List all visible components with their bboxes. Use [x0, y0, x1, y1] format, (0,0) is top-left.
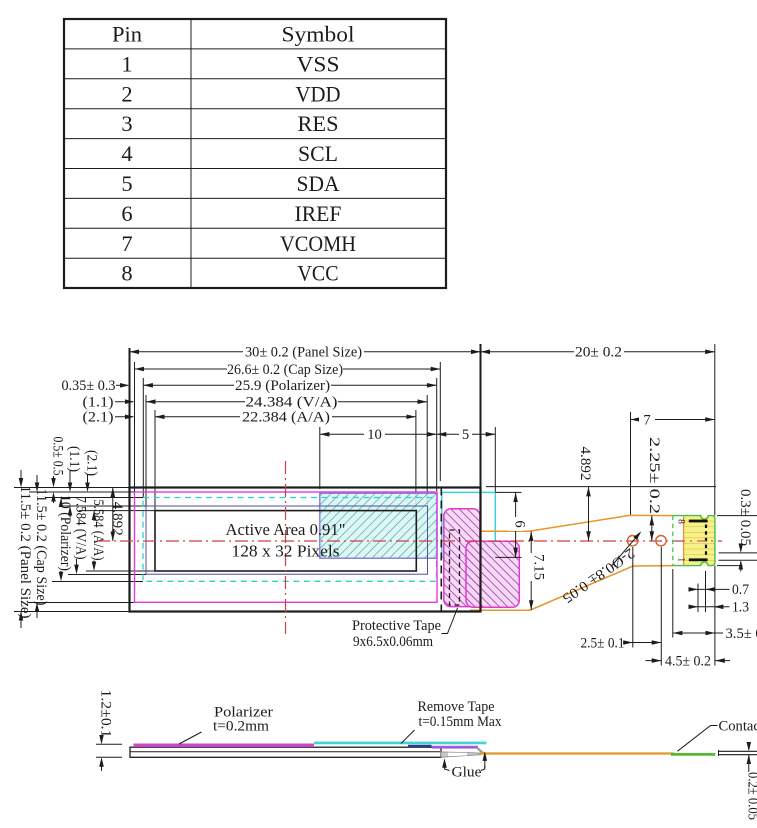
hole label 2-Ø0.8±0.05 (diagonal) — [559, 533, 640, 606]
svg-text:Pin: Pin — [112, 22, 142, 47]
dim 1.3 — [689, 600, 749, 616]
label polarizer t=0.2mm — [179, 705, 273, 745]
svg-text:0.35± 0.3: 0.35± 0.3 — [62, 378, 116, 394]
svg-text:Glue: Glue — [452, 764, 482, 780]
svg-text:Symbol: Symbol — [282, 22, 355, 47]
svg-text:22.384 (A/A): 22.384 (A/A) — [242, 410, 330, 426]
svg-text:Protective Tape: Protective Tape — [352, 618, 441, 634]
connector yellow body — [684, 516, 715, 564]
dim 30±0.2 / 20±0.2 panel width line — [130, 344, 715, 361]
connector green fold dashed line — [672, 516, 674, 566]
side view: polarizer band (magenta) — [134, 744, 315, 748]
svg-text:1: 1 — [121, 51, 132, 76]
svg-text:1.2±0.1: 1.2±0.1 — [98, 690, 114, 738]
svg-text:VSS: VSS — [297, 51, 340, 76]
extension line top-right horizontal — [486, 486, 716, 488]
svg-text:4.892: 4.892 — [109, 502, 125, 536]
pin table text — [112, 22, 356, 286]
dim 0.2±0.05 — [745, 744, 757, 821]
svg-text:6: 6 — [512, 520, 528, 527]
connector pin 8 (top) — [689, 520, 708, 523]
mounting hole 2 — [656, 536, 666, 546]
side view: glue wedge — [441, 748, 483, 757]
connector middle pins (dashed) — [705, 525, 707, 558]
svg-text:SDA: SDA — [297, 171, 341, 196]
left vertical dim labels (rotated) — [17, 437, 125, 619]
svg-text:VCOMH: VCOMH — [280, 231, 356, 256]
label remove tape t=0.15mm max — [401, 699, 502, 744]
svg-text:IREF: IREF — [295, 201, 342, 226]
protective tape label + leader — [352, 608, 458, 650]
svg-text:4: 4 — [121, 141, 132, 166]
remove tape A (hatched cyan, over panel) — [320, 493, 437, 558]
svg-text:(1.1): (1.1) — [83, 395, 114, 411]
svg-text:8: 8 — [676, 519, 686, 524]
centerline vertical (red) — [285, 461, 287, 634]
polarizer outline (cyan dashed) — [143, 498, 437, 582]
side view: glass slabs — [130, 747, 441, 757]
A/A outline — [155, 511, 416, 571]
svg-text:t=0.15mm Max: t=0.15mm Max — [419, 714, 503, 730]
glass edge dashed line — [440, 488, 442, 612]
svg-text:2.25± 0.2: 2.25± 0.2 — [646, 437, 662, 514]
pin table frame — [64, 19, 446, 288]
fpc outline bottom (orange) — [470, 566, 673, 611]
svg-text:VDD: VDD — [296, 81, 341, 106]
side view: fpc bonded end (violet) — [432, 746, 478, 749]
svg-text:0.5± 0.5: 0.5± 0.5 — [50, 437, 66, 476]
svg-text:(2.1): (2.1) — [84, 450, 100, 476]
svg-text:0.7: 0.7 — [732, 582, 749, 598]
dim 2.5±0.1 — [581, 635, 662, 651]
dim 7 — [631, 412, 715, 428]
svg-text:25.9 (Polarizer): 25.9 (Polarizer) — [235, 378, 330, 394]
svg-text:RES: RES — [298, 111, 339, 136]
svg-text:0.2± 0.05: 0.2± 0.05 — [745, 772, 757, 820]
svg-text:7: 7 — [121, 231, 132, 256]
svg-text:4.5± 0.2: 4.5± 0.2 — [665, 653, 711, 669]
svg-text:5: 5 — [121, 171, 132, 196]
svg-text:Remove Tape: Remove Tape — [418, 699, 495, 715]
dim 0.7 — [689, 582, 749, 598]
svg-text:(1.1): (1.1) — [66, 446, 82, 472]
svg-text:1.3: 1.3 — [732, 600, 749, 616]
svg-text:20± 0.2: 20± 0.2 — [575, 345, 622, 361]
label glue + leaders — [445, 753, 485, 780]
dim 26.6±0.2 cap size — [135, 361, 441, 377]
bottom-right extension verticals — [633, 547, 715, 666]
panel outline (black) — [130, 488, 481, 612]
svg-text:24.384 (V/A): 24.384 (V/A) — [246, 395, 338, 411]
mounting hole 1 — [627, 536, 637, 546]
svg-text:5: 5 — [462, 427, 469, 443]
fpc outline top (orange) — [467, 515, 673, 531]
svg-text:7: 7 — [643, 412, 650, 428]
dim 4.892 right — [577, 447, 593, 542]
remove tape B (cyan outline, right of cap) — [442, 492, 496, 557]
dim 24.384 V/A + (1.1) label — [83, 394, 428, 410]
svg-text:3: 3 — [121, 111, 132, 136]
dim 0.3±0.05 — [737, 489, 753, 572]
dim 1.2±0.1 — [96, 690, 122, 772]
svg-text:11.5± 0.2 (Panel Size): 11.5± 0.2 (Panel Size) — [17, 486, 33, 619]
svg-text:t=0.2mm: t=0.2mm — [213, 719, 270, 735]
dim 22.384 A/A + (2.1) label — [83, 409, 416, 425]
svg-text:1: 1 — [676, 557, 686, 562]
centerline over connector (red) — [676, 540, 722, 542]
extension lines from top dims down to panel features — [130, 344, 715, 516]
svg-text:9x6.5x0.06mm: 9x6.5x0.06mm — [353, 634, 434, 650]
side view: contact area (green) — [671, 753, 715, 756]
side view: seal band (navy) — [408, 745, 432, 748]
svg-text:3.5± 0.2: 3.5± 0.2 — [726, 626, 757, 642]
dim 10 — [320, 427, 437, 443]
protective tape piece 1 (pink hatched) — [444, 509, 480, 607]
dim 4.892 left — [112, 488, 114, 542]
svg-text:5.584 (A/A): 5.584 (A/A) — [90, 500, 106, 561]
dim 5 — [437, 427, 496, 443]
svg-text:Contact: Contact — [719, 718, 757, 734]
side view: fpc cable (orange) — [479, 752, 675, 754]
svg-text:2-Ø0.8± 0.05: 2-Ø0.8± 0.05 — [559, 545, 637, 606]
svg-text:26.6± 0.2 (Cap Size): 26.6± 0.2 (Cap Size) — [227, 362, 343, 378]
svg-text:8: 8 — [121, 261, 132, 286]
svg-text:VCC: VCC — [298, 261, 339, 286]
dim 4.5±0.2 — [646, 653, 731, 669]
dim 6 — [495, 492, 527, 557]
label contact — [678, 718, 757, 751]
svg-text:4.892: 4.892 — [577, 447, 593, 481]
connector outline (green) — [673, 516, 715, 566]
svg-text:SCL: SCL — [298, 141, 338, 166]
svg-text:6: 6 — [121, 201, 132, 226]
side view: remove tape band (cyan) — [314, 742, 487, 745]
svg-text:10: 10 — [367, 427, 382, 443]
side view: mating pin lines — [719, 750, 757, 756]
V/A outline — [146, 506, 428, 574]
svg-text:2.5± 0.1: 2.5± 0.1 — [581, 635, 625, 651]
dim 2.25±0.2 — [646, 437, 662, 541]
right side extension lines — [717, 516, 757, 566]
svg-text:30± 0.2 (Panel Size): 30± 0.2 (Panel Size) — [245, 345, 362, 361]
left extension lines — [14, 488, 155, 612]
driver IC (dashed rect) — [450, 530, 460, 605]
cap outline (magenta) — [135, 492, 438, 602]
dim 25.9 polarizer + 0.35±0.3 label — [62, 378, 437, 394]
svg-text:11.5± 0.2 (Cap Size): 11.5± 0.2 (Cap Size) — [33, 489, 49, 606]
dim 7.15 — [527, 531, 547, 610]
svg-text:(2.1): (2.1) — [83, 410, 114, 426]
protective tape piece 2 (pink hatched) — [466, 541, 519, 607]
centerline horizontal (red) — [97, 540, 722, 542]
svg-text:2: 2 — [121, 81, 132, 106]
svg-text:128 x 32 Pixels: 128 x 32 Pixels — [232, 542, 340, 561]
active area text — [226, 520, 346, 561]
svg-text:Active Area 0.91": Active Area 0.91" — [226, 520, 346, 539]
svg-text:7.15: 7.15 — [531, 554, 547, 580]
left dim arrows — [21, 470, 113, 628]
dim 3.5±0.2 — [673, 626, 757, 642]
connector pin 1 (bottom) — [689, 558, 708, 561]
svg-text:0.3± 0.05: 0.3± 0.05 — [737, 489, 753, 546]
